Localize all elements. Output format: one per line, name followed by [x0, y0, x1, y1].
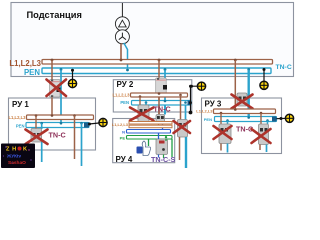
node: RU2 right L tap [179, 94, 182, 97]
label N (RU4) [122, 130, 125, 135]
channel logo plate [1, 144, 35, 169]
transformer T1 (delta-wye) [115, 17, 129, 44]
svg-text:TN-C: TN-C [276, 64, 292, 71]
breaker QF8 (RU3 feeder1, crossed) [219, 124, 231, 144]
label TN-C (RU2) [154, 105, 171, 114]
wire: RU2 right L drop (brown) [180, 95, 182, 120]
node: transformer PEN junction [126, 69, 129, 72]
svg-text:PEN: PEN [16, 124, 25, 129]
svg-text:РУ 2: РУ 2 [117, 80, 134, 89]
label PE (RU4) [120, 136, 126, 141]
label L1,L2,L3 (RU3) [196, 109, 213, 114]
svg-text:PE: PE [120, 136, 126, 141]
RU4 box [113, 119, 175, 165]
wire: RU1 feeder2 PEN (cyan) [81, 123, 83, 166]
node: tap PEN to RU2 [164, 68, 167, 71]
wire: PEN drop to RU1 (cyan) [60, 70, 62, 124]
wire: QF5 out L (brown) [158, 123, 160, 127]
node: RU1 PEN in [60, 122, 63, 125]
svg-text:TN-C: TN-C [49, 131, 66, 140]
label L1,L2,L3 (RU1) [9, 115, 27, 120]
node: RU3 PEN ground tap [280, 117, 283, 120]
label PEN (RU2) [120, 100, 129, 105]
RU3 box [202, 98, 282, 154]
ground electrode (main bus right) [260, 81, 268, 89]
wire: RU2 ground conductor (black) [189, 85, 197, 115]
breaker QF9 (RU3 feeder2, crossed) [259, 124, 269, 145]
substation box [11, 3, 294, 77]
node: RU1 feeder PEN tap [40, 122, 43, 129]
wire: grounding conductor (black) [72, 70, 74, 79]
wire: RU1 feeder PEN down (cyan) [41, 140, 43, 162]
node: RU3 feeder1 PEN tap [226, 119, 229, 124]
svg-text:L1,L2,L3: L1,L2,L3 [9, 59, 41, 68]
breaker QF7 (feeder to RU3, crossed) [237, 93, 247, 106]
bus L1,L2,L3 (RU3) [214, 109, 276, 114]
bus PEN (RU1) [26, 123, 89, 128]
thumbs-up icon [137, 141, 151, 156]
svg-text:РУ 1: РУ 1 [12, 100, 29, 109]
wire: QF5 out N (cyan) [162, 123, 164, 131]
wire: below QF6 PEN (thick cyan) [185, 137, 187, 168]
node: RU2 PEN in [164, 100, 167, 103]
node: RU2 feeder L tap [139, 95, 142, 105]
svg-text:K: K [23, 147, 27, 153]
X mark over QF7 [232, 95, 253, 109]
X mark over QF6 [174, 121, 191, 133]
node: RU1 L in [51, 114, 54, 117]
node: RU2 feeder PEN tap [145, 101, 148, 105]
breaker QF3 (feeder to RU2) [156, 78, 167, 97]
svg-text:Подстанция: Подстанция [27, 10, 82, 20]
svg-text:РУ 3: РУ 3 [205, 100, 222, 109]
wire: RCD out N stub [158, 155, 160, 158]
wire: QF8 out L (brown) [220, 144, 222, 151]
node: tap L to RU1 [51, 59, 54, 62]
X mark over QF8 [214, 126, 232, 139]
node: RU1 PEN ground tap [88, 123, 91, 126]
node: RU3 L in [234, 108, 237, 111]
ground electrode (substation) [68, 79, 76, 87]
wire: HV feed to transformer [121, 3, 123, 17]
svg-text:TN-C: TN-C [154, 105, 171, 114]
node: PE bus right tap [165, 136, 167, 141]
X mark over QF2 [26, 130, 48, 145]
svg-text:SashaО: SashaО [8, 160, 26, 166]
wire: RU2 to RU4 L (brown) [158, 97, 160, 115]
bus PEN (RU3) [215, 117, 277, 122]
ground electrode (RU2) [197, 82, 205, 90]
wire: RCD PE feed [148, 139, 150, 146]
wire: RU1 feeder2 L (brown) [74, 116, 76, 160]
node: tap L to RU3 [234, 59, 237, 62]
svg-text:ЖУКtv: ЖУКtv [6, 154, 21, 159]
label TN-C (RU3) [236, 125, 253, 134]
svg-text:L1,L2,L3: L1,L2,L3 [9, 115, 27, 120]
wire: grounding conductor right (black) [263, 70, 265, 82]
wire: RU3 ground conductor (black) [277, 117, 286, 119]
node: RU1 feeder2 L tap [73, 114, 76, 117]
RU1 box [9, 98, 96, 150]
breaker QF1 (substation feeder to RU1) [50, 80, 61, 98]
wire: QF8 out PEN (cyan) [227, 144, 229, 153]
breaker QF5 (RU4 incoming) [156, 115, 165, 124]
RU2 box [113, 80, 192, 112]
wire: transformer PEN output (cyan) [124, 43, 128, 70]
node: substation PEN ground tap [71, 69, 74, 72]
bus L1,L2,L3 (RU4, two bars) [129, 122, 172, 128]
wire: RU2 right PEN drop (cyan) [185, 105, 187, 120]
wire: QF9 out PEN (cyan) [266, 145, 268, 153]
wire: QF9 out L (brown) [259, 145, 261, 151]
node: RU2 L in [158, 92, 161, 95]
node: right PEN ground tap [263, 68, 266, 71]
label PEN (RU3) [204, 117, 212, 122]
label TN-C-S (RU4) [151, 155, 176, 164]
label TN-C (RU1) [49, 131, 66, 140]
svg-text:L1,L2,L3: L1,L2,L3 [113, 93, 131, 98]
ground electrode (RU3) [285, 114, 293, 122]
wire: PEN drop to RU3 (thick cyan) [247, 70, 249, 119]
bus PEN (main) [24, 68, 271, 77]
node: tap PEN to RU1 [60, 68, 63, 71]
wire: RCD N feed [158, 133, 160, 139]
wire: phases drop to RU1 (brown) [51, 60, 53, 116]
bus L1,L2,L3 (RU2) [131, 93, 188, 97]
breaker QF6 (right of RU4, crossed) [178, 120, 188, 138]
wire: RU1 ground conductor (black) [89, 123, 99, 124]
svg-text:L1,L2,L3: L1,L2,L3 [112, 122, 129, 127]
node: tap L to RU2 [158, 59, 161, 62]
bus L1,L2,L3 (main) [9, 59, 272, 68]
node: RU3 feeder2 PEN tap [266, 119, 269, 124]
node: RU2 PEN ground tap [190, 85, 193, 88]
node: RU1 feeder L tap [35, 114, 38, 128]
node: transformer L junction [120, 59, 123, 62]
svg-text:PEN: PEN [204, 117, 212, 122]
X mark over QF1 [47, 80, 67, 97]
svg-text:PEN: PEN [24, 68, 40, 77]
svg-text:N: N [122, 130, 125, 135]
svg-text:РУ 4: РУ 4 [116, 155, 133, 164]
label PEN (RU1) [16, 124, 25, 129]
wire: phases drop to RU3 (brown) [234, 60, 236, 110]
X mark over QF4 [130, 108, 154, 121]
breaker QF4 (RU2 outgoing, crossed) [138, 105, 149, 123]
node: RU3 feeder2 L tap [260, 112, 263, 124]
ground electrode (RU1) [99, 118, 107, 126]
wire: phases drop to RU2 (brown) [158, 60, 160, 114]
wire: RU2 to RU4 PEN (cyan) [164, 105, 166, 115]
wire: PEN drop to RU2 (cyan) [164, 70, 166, 115]
label TN-C (system, main) [276, 64, 292, 71]
bus PEN (RU2) [132, 101, 192, 106]
node: RU3 feeder1 L tap [220, 112, 223, 124]
label L1,L2,L3 (RU2) [113, 93, 131, 98]
wire: transformer phase output (brown) [120, 44, 122, 61]
wire: PE right drop (green) [171, 139, 173, 157]
svg-text:L1,L2,L3: L1,L2,L3 [196, 109, 213, 114]
svg-text:Z H: Z H [6, 147, 17, 153]
wire: RCD out PE stub [163, 155, 165, 159]
node: RU1 feeder2 PEN tap [80, 122, 83, 125]
node: RU2 right PEN tap [184, 101, 187, 104]
svg-text:TN-C-S: TN-C-S [151, 155, 176, 164]
bus L1,L2,L3 (RU1) [27, 115, 94, 120]
RCD device (RU4) [156, 139, 168, 155]
svg-text:PEN: PEN [120, 100, 129, 105]
wire: below QF6 L (brown) [179, 137, 181, 160]
bus N (RU4) [127, 130, 171, 134]
breaker QF2 (RU1 outgoing) [31, 129, 42, 143]
X mark over QF9 [252, 129, 271, 143]
node: tap PEN to RU3 [247, 68, 250, 71]
bus PE (RU4) [127, 136, 173, 140]
node: RU3 PEN in [247, 116, 250, 119]
label L1,L2,L3 (RU4) [112, 122, 129, 127]
